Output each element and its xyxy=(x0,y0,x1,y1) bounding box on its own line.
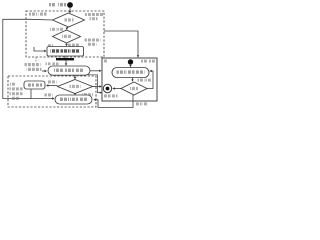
dashed container B2 (협력 영역) xyxy=(8,76,96,107)
label above arrow D4->R5 xyxy=(48,80,57,83)
wire R2 bottom-right -> bullseye xyxy=(87,75,100,93)
D3 inner text xyxy=(130,87,138,90)
arrow note -> R2 left xyxy=(42,70,45,72)
label right of S2 xyxy=(141,60,156,63)
D4 inner text xyxy=(70,85,81,88)
decision D1 xyxy=(53,13,85,27)
label 예 (left of R1 top) xyxy=(48,44,54,47)
wire R3 -> D3 xyxy=(132,78,134,81)
wire start -> D1 xyxy=(69,8,71,12)
wire S2 -> R3 xyxy=(130,65,132,66)
dashed container B1 (상위 에이전트 영역) xyxy=(26,11,104,57)
final node (bullseye) xyxy=(103,84,111,92)
wire D3 bottom -> under box -> R4 xyxy=(95,95,133,108)
wire R5 -> R4 (elbow) xyxy=(31,89,53,99)
note label right of D1: (작업 수행 중) 저장 xyxy=(85,13,103,20)
process R1: 초기 상태 설정 xyxy=(47,47,84,57)
wire fork bar -> R2 xyxy=(65,60,67,64)
label below bullseye xyxy=(104,94,118,97)
decision D2 xyxy=(53,30,81,43)
R1 inner text xyxy=(51,49,80,52)
label right of R3->D3 wire xyxy=(138,79,152,82)
wire R2 -> box M xyxy=(90,70,100,72)
wire R2 bottom -> D4 xyxy=(74,75,76,78)
wire D1 left -> far-left down to B2 xyxy=(3,19,53,98)
wire D4 right -> box M xyxy=(93,86,101,88)
label 불가능 (below-right of D2) xyxy=(68,44,79,47)
wire D1 -> D2 xyxy=(67,27,69,28)
wire R1 -> fork bar xyxy=(64,56,66,58)
B2 left inner text block (3 lines) xyxy=(10,83,23,100)
fork bar xyxy=(56,58,74,60)
R4 inner text xyxy=(60,98,88,101)
label: 초기 상태 (left of start dot) xyxy=(49,3,66,6)
label M (inside box M top-left) xyxy=(104,60,108,63)
wire D2 -> R1 xyxy=(66,43,68,45)
activity R4 (stadium) xyxy=(55,95,92,104)
wire D3 -> bullseye xyxy=(114,88,121,90)
label below-right of D4 xyxy=(82,93,93,96)
start node (top) xyxy=(67,2,73,8)
activity R2 (stadium) xyxy=(48,66,90,75)
decision D4 xyxy=(58,80,93,94)
label inside B1 top-left xyxy=(29,13,47,16)
activity R5 (작업 계획) xyxy=(24,81,45,89)
elbow arrow into R1 from left xyxy=(34,47,45,51)
R2 inner text xyxy=(54,69,84,72)
R5 inner text xyxy=(27,83,42,86)
activity R3 (stadium) xyxy=(112,68,149,78)
start node S2 (inside box M) xyxy=(128,59,133,64)
D2 inner text xyxy=(62,35,71,38)
R3 inner text xyxy=(117,70,145,73)
wire B1 edge -> box M top (elbow right) xyxy=(104,31,138,56)
D1 inner text xyxy=(65,18,74,21)
container box M (solid) xyxy=(102,58,157,101)
dashed stub from B1 bottom to note xyxy=(35,57,37,62)
wire D4 bottom -> R4 xyxy=(74,93,76,96)
small label above R2 left xyxy=(46,62,51,65)
label 협력 수행 (below-left of D1) xyxy=(50,28,63,31)
wire D3 right loop -> R3 xyxy=(147,71,153,89)
note below B1 (2 lines) xyxy=(25,63,42,71)
label right of D3-down wire (below box M) xyxy=(136,102,148,105)
note right of D2 (2 lines) xyxy=(85,39,101,46)
decision D3 xyxy=(121,82,147,95)
label above R5->R4 wire xyxy=(45,93,53,96)
wire D4 -> R5 xyxy=(48,85,58,87)
